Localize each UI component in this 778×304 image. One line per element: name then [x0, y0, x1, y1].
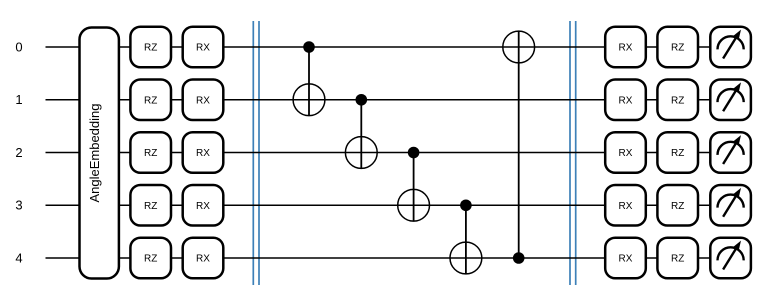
svg-text:RZ: RZ — [671, 254, 684, 265]
svg-text:RX: RX — [196, 43, 210, 54]
svg-text:RZ: RZ — [144, 254, 157, 265]
svg-text:RX: RX — [619, 43, 633, 54]
svg-text:3: 3 — [15, 198, 22, 213]
svg-text:RX: RX — [196, 254, 210, 265]
svg-text:RZ: RZ — [671, 201, 684, 212]
svg-text:RZ: RZ — [671, 148, 684, 159]
svg-text:RZ: RZ — [144, 95, 157, 106]
svg-text:RZ: RZ — [144, 201, 157, 212]
svg-text:RZ: RZ — [144, 43, 157, 54]
svg-text:0: 0 — [15, 39, 22, 54]
svg-text:RX: RX — [196, 95, 210, 106]
svg-text:RZ: RZ — [144, 148, 157, 159]
svg-text:2: 2 — [15, 145, 22, 160]
svg-text:4: 4 — [15, 250, 22, 265]
svg-text:RX: RX — [196, 148, 210, 159]
svg-text:AngleEmbedding: AngleEmbedding — [87, 103, 102, 202]
svg-text:RX: RX — [619, 201, 633, 212]
svg-text:RZ: RZ — [671, 43, 684, 54]
svg-text:RX: RX — [619, 148, 633, 159]
svg-text:RX: RX — [619, 95, 633, 106]
svg-text:RX: RX — [196, 201, 210, 212]
svg-text:RZ: RZ — [671, 95, 684, 106]
svg-text:1: 1 — [15, 92, 22, 107]
svg-text:RX: RX — [619, 254, 633, 265]
